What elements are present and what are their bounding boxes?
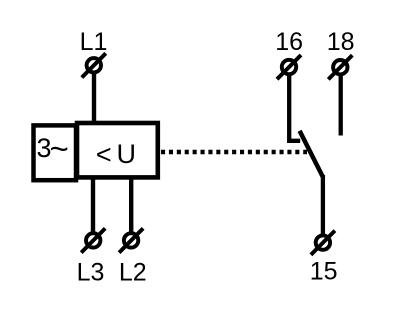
terminal L1 xyxy=(82,53,106,77)
svg-text:<: < xyxy=(96,140,112,170)
svg-text:U: U xyxy=(117,139,137,169)
wire 15 common xyxy=(321,175,325,235)
dotted actuation link from relay to switch xyxy=(161,150,307,155)
wire L1 to relay box xyxy=(92,73,96,124)
svg-text:L2: L2 xyxy=(119,259,147,287)
relay box U1 section 3~ xyxy=(34,125,77,180)
svg-text:18: 18 xyxy=(327,28,355,56)
relay box U1 section &lt;U xyxy=(77,123,158,177)
svg-text:L1: L1 xyxy=(80,28,108,56)
wire L3 from relay box xyxy=(91,178,95,233)
terminal 15 xyxy=(311,231,335,255)
wire 18 open contact xyxy=(339,75,343,136)
wire 16 with fixed contact hook xyxy=(289,75,300,141)
wire L2 from relay box xyxy=(129,178,133,233)
switch arm (changeover contact) xyxy=(300,131,323,177)
svg-text:15: 15 xyxy=(310,258,338,286)
svg-text:16: 16 xyxy=(275,28,303,56)
terminal L2 xyxy=(119,228,143,252)
terminal 16 xyxy=(277,55,301,79)
terminal 18 xyxy=(328,55,352,79)
svg-text:L3: L3 xyxy=(77,259,105,287)
terminal L3 xyxy=(81,228,105,252)
svg-text:~: ~ xyxy=(50,130,69,167)
